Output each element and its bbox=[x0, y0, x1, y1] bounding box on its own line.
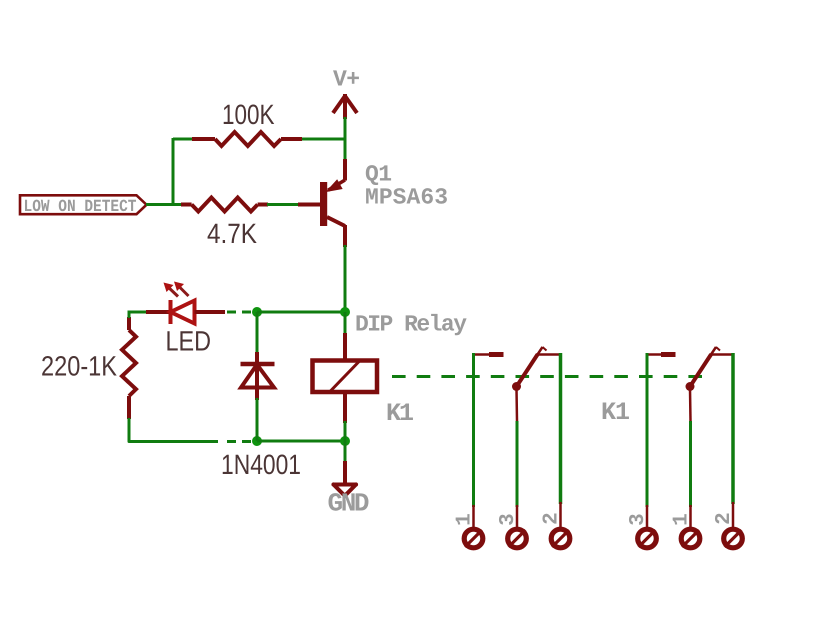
pad 3 group a bbox=[508, 529, 527, 548]
contact a fixed pin bbox=[474, 353, 504, 356]
wire contact a pin1 bbox=[472, 353, 475, 507]
wire contact a pin2 bbox=[559, 353, 563, 504]
svg-text:GND: GND bbox=[328, 489, 370, 519]
LED bbox=[146, 300, 225, 324]
svg-text:K1: K1 bbox=[601, 398, 630, 427]
value label 4.7K bbox=[207, 218, 257, 249]
relay coil K1 bbox=[313, 333, 378, 423]
wire relay coil to gnd node bbox=[344, 421, 347, 441]
junction relay top bbox=[340, 307, 350, 317]
wire contact b pin1 red bbox=[689, 389, 692, 421]
pad 2 group a bbox=[551, 529, 570, 548]
power V+ arrow symbol bbox=[333, 94, 357, 119]
pin number 2 group a bbox=[541, 512, 564, 525]
pin stub pad2b bbox=[732, 502, 735, 528]
pad 1 group b bbox=[681, 529, 700, 548]
label MPSA63 bbox=[365, 185, 448, 211]
wire flag to 4.7K bbox=[146, 203, 182, 206]
svg-text:MPSA63: MPSA63 bbox=[365, 185, 448, 211]
pin stub pad3b bbox=[646, 505, 649, 528]
dashed wire LED to diode node bbox=[227, 311, 254, 314]
label Q1 bbox=[365, 162, 392, 188]
label K1 coil bbox=[386, 399, 414, 428]
wire top rail left segment bbox=[173, 138, 194, 141]
wire Q1 collector to relay node bbox=[344, 245, 347, 313]
svg-text:100K: 100K bbox=[222, 99, 275, 130]
svg-text:DIP Relay: DIP Relay bbox=[355, 312, 467, 338]
pad 2 group b bbox=[724, 529, 743, 548]
pin number 2 group b bbox=[713, 512, 736, 525]
power V+ label bbox=[333, 67, 360, 93]
pin stub pad1a bbox=[472, 505, 475, 528]
dashed link coil to contacts bbox=[392, 375, 710, 378]
value label LED bbox=[166, 326, 212, 357]
svg-text:1N4001: 1N4001 bbox=[221, 449, 301, 480]
pin number 3 group a bbox=[497, 513, 520, 526]
dashed wire bottom rail bbox=[227, 440, 252, 443]
resistor 220-1K bbox=[122, 317, 136, 419]
value label 220-1K bbox=[41, 351, 117, 382]
ground bbox=[334, 461, 357, 496]
svg-text:LED: LED bbox=[166, 326, 212, 357]
wire left vertical (100K to 4.7K node) bbox=[172, 138, 175, 205]
pin stub pad3a bbox=[516, 505, 519, 528]
svg-text:3: 3 bbox=[497, 513, 520, 526]
contact b blade bbox=[686, 347, 734, 391]
value label 100K bbox=[222, 99, 275, 130]
svg-text:K1: K1 bbox=[386, 399, 414, 428]
svg-text:3: 3 bbox=[627, 513, 650, 526]
pin stub pad2a bbox=[559, 502, 562, 528]
wire 220-1K bottom corner bbox=[129, 418, 152, 442]
value label 1N4001 bbox=[221, 449, 301, 480]
svg-text:1: 1 bbox=[671, 513, 694, 526]
wire gnd stub bbox=[344, 441, 347, 463]
wire LED row left corner bbox=[129, 311, 148, 314]
contact a blade bbox=[512, 347, 561, 391]
LED arrows bbox=[164, 282, 189, 297]
resistor 4.7K bbox=[181, 198, 268, 212]
pad 3 group b bbox=[638, 529, 657, 548]
wire emitter top (green) bbox=[344, 139, 347, 160]
pin number 3 group b bbox=[627, 513, 650, 526]
wire contact b pin1 green bbox=[689, 421, 692, 507]
pin number 1 group b bbox=[671, 513, 694, 526]
junction gnd node bbox=[340, 436, 350, 446]
label K1 contacts bbox=[601, 398, 630, 427]
svg-text:4.7K: 4.7K bbox=[207, 218, 257, 249]
svg-text:LOW ON DETECT: LOW ON DETECT bbox=[24, 198, 137, 217]
label GND bbox=[328, 489, 370, 519]
wire diode bottom pin bbox=[256, 398, 259, 441]
junction diode bottom bbox=[252, 436, 262, 446]
wire contact a pin3 bbox=[515, 389, 518, 507]
pin number 1 group a bbox=[454, 513, 477, 526]
diode 1N4001 bbox=[241, 352, 275, 400]
wire 220-1K top corner bbox=[128, 311, 131, 319]
svg-text:V+: V+ bbox=[333, 67, 360, 93]
junction diode top bbox=[252, 307, 262, 317]
wire diode node to relay node bbox=[257, 311, 345, 314]
wire contact b pin3 bbox=[646, 353, 649, 507]
wire top rail right segment bbox=[301, 138, 346, 141]
label DIP Relay bbox=[355, 312, 467, 338]
contact b fixed pin bbox=[647, 353, 676, 356]
resistor 100K bbox=[192, 132, 302, 146]
wire contact a pin3 green bbox=[516, 421, 519, 507]
svg-text:2: 2 bbox=[713, 512, 736, 525]
wire 4.7K to Q1 base bbox=[267, 203, 299, 206]
pad 1 group a bbox=[464, 529, 483, 548]
svg-text:220-1K: 220-1K bbox=[41, 351, 117, 382]
pin stub pad1b bbox=[689, 505, 692, 528]
wire V+ to top rail bbox=[344, 117, 347, 141]
svg-text:2: 2 bbox=[541, 512, 564, 525]
wire bottom rail left bbox=[150, 440, 218, 443]
wire diode top pin bbox=[256, 312, 259, 354]
transistor Q1 bbox=[298, 159, 345, 247]
wire bottom rail right bbox=[257, 440, 345, 443]
wire relay coil top pin bbox=[344, 312, 347, 335]
net flag LOW ON DETECT bbox=[20, 195, 147, 217]
svg-text:1: 1 bbox=[454, 513, 477, 526]
wire contact b pin2 bbox=[731, 353, 735, 504]
